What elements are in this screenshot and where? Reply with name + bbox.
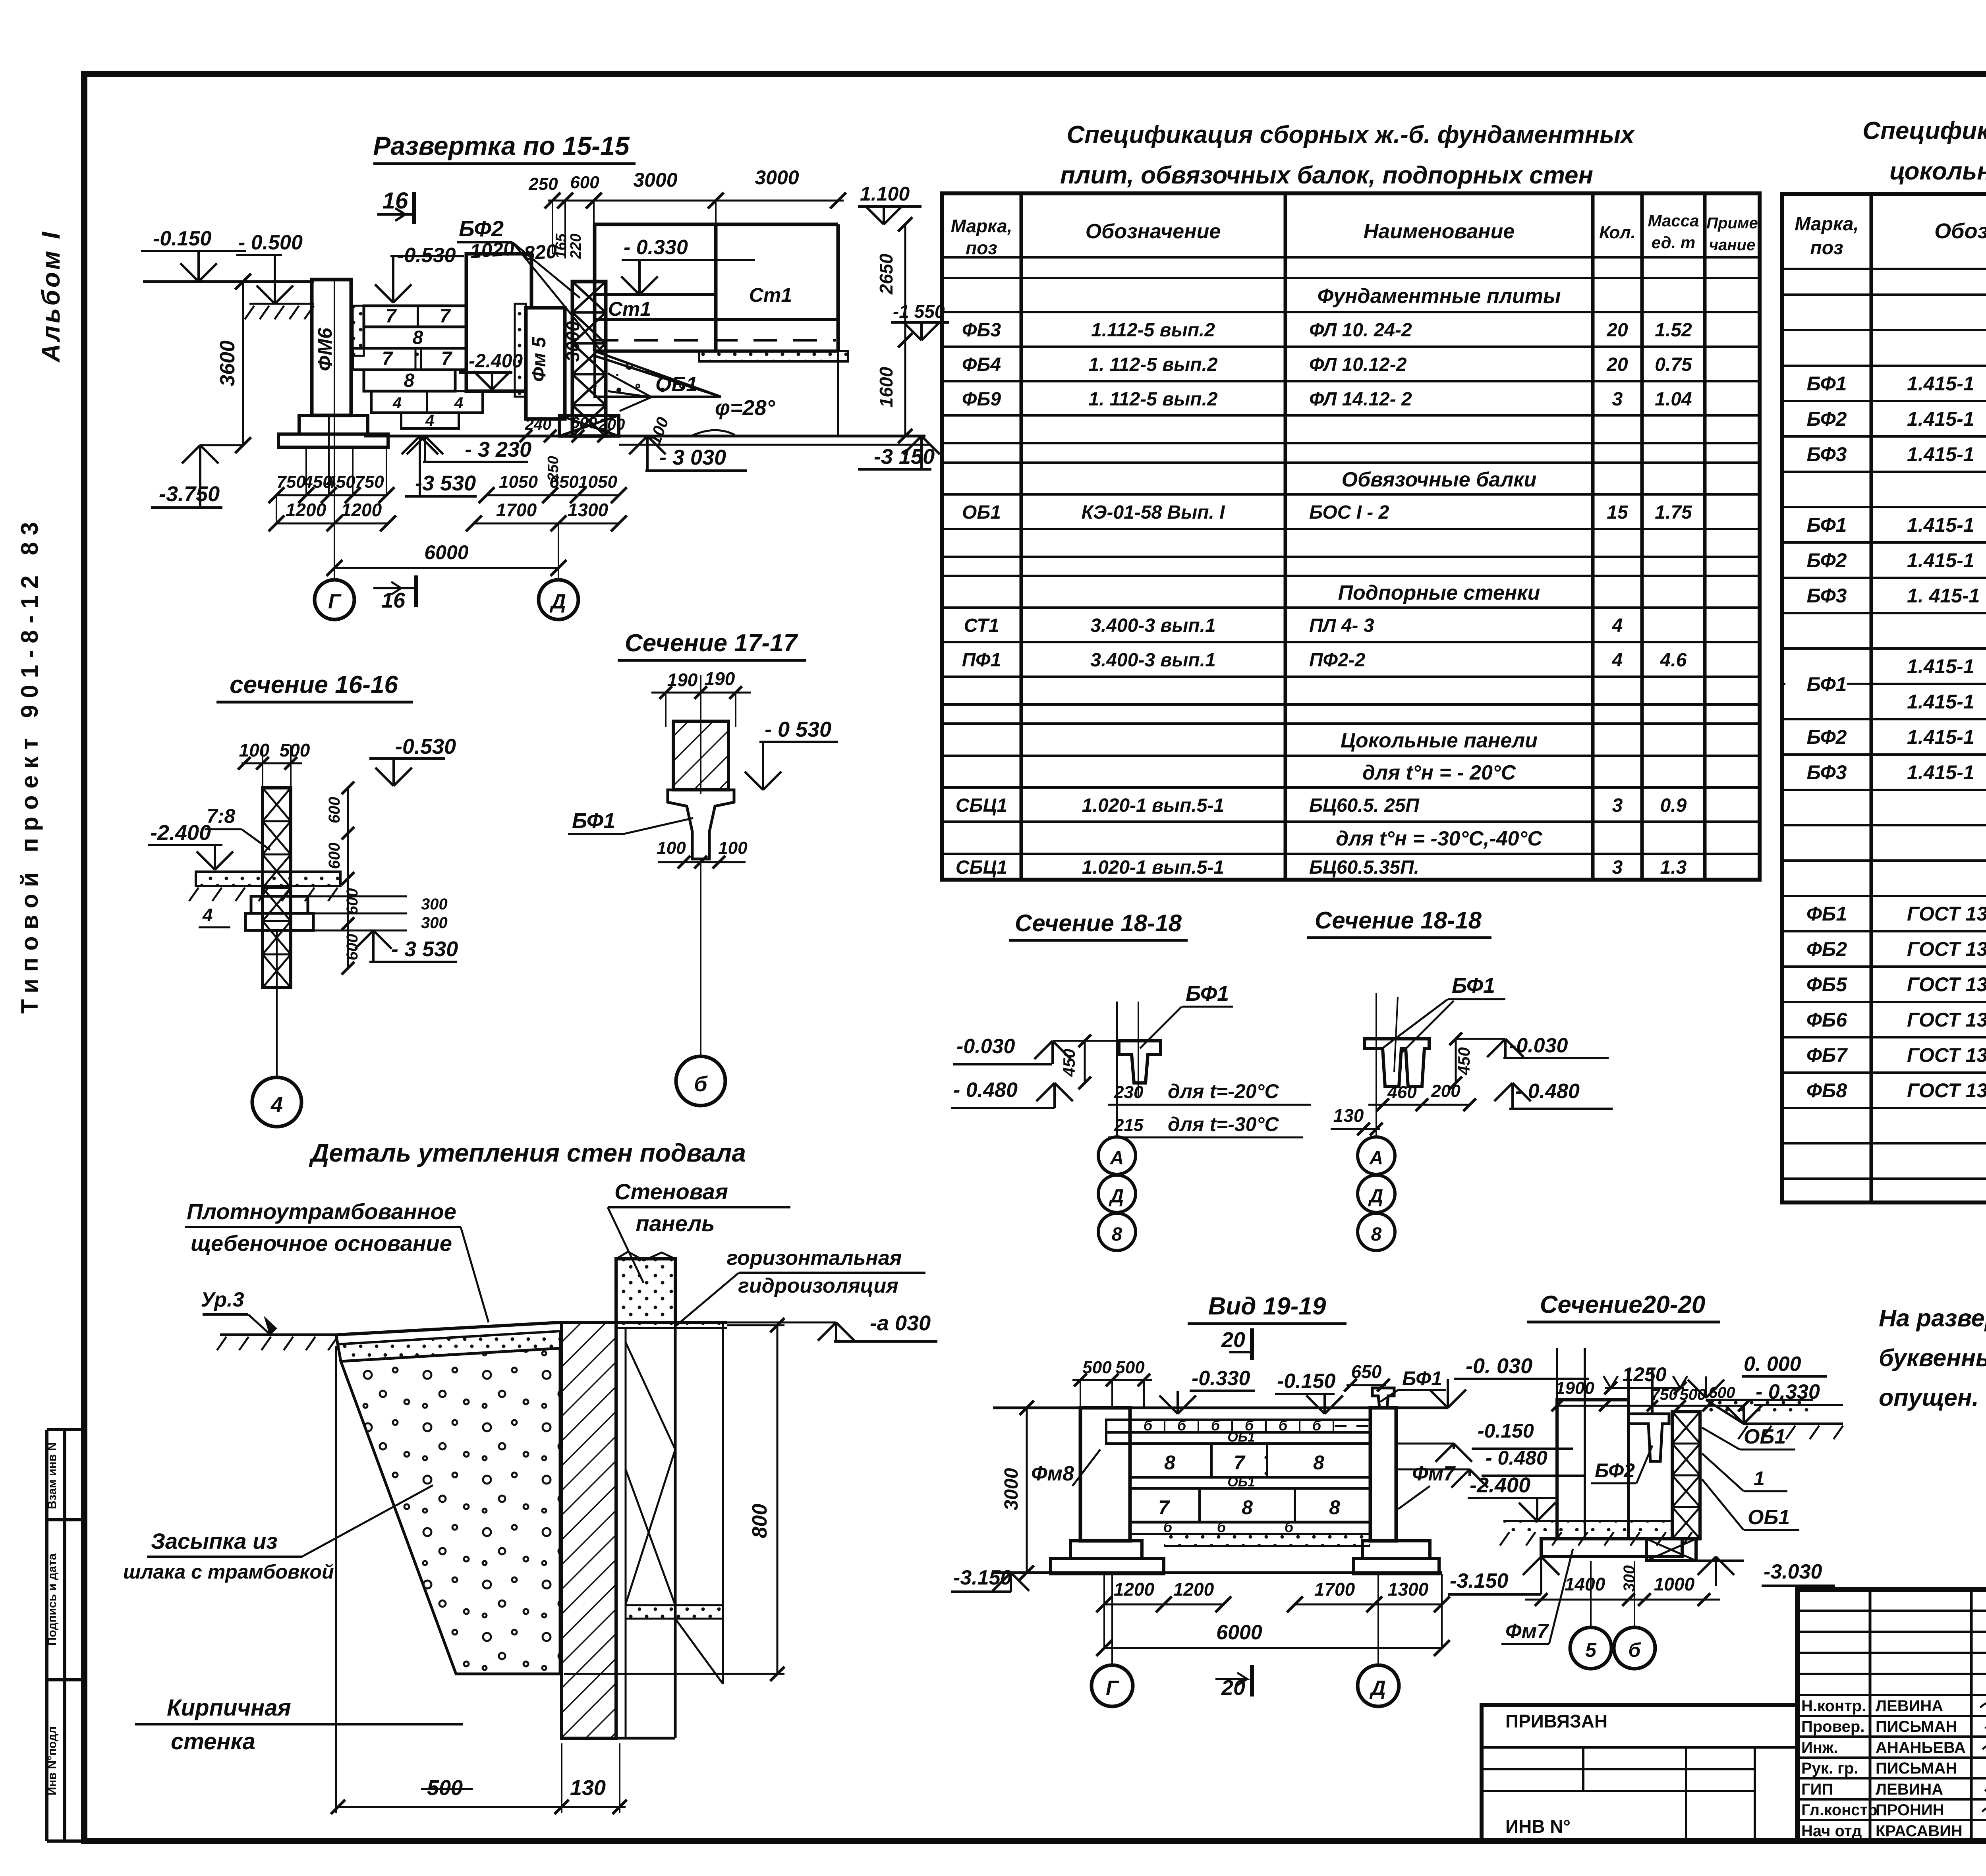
svg-text:650: 650 (549, 472, 579, 492)
membrane band lower (626, 1605, 723, 1619)
svg-text:1.415-1: 1.415-1 (1907, 726, 1974, 748)
svg-text:Обвязочные балки: Обвязочные балки (1342, 468, 1537, 491)
column Fm5 (526, 308, 565, 419)
svg-text:ОБ1: ОБ1 (655, 373, 697, 396)
svg-text:БФ2: БФ2 (1807, 408, 1847, 430)
svg-text:Г: Г (328, 590, 342, 613)
svg-text:460: 460 (1387, 1083, 1417, 1102)
svg-text:215: 215 (1114, 1116, 1144, 1135)
dim 3600 vertical (242, 282, 244, 445)
svg-text:СТ1: СТ1 (964, 615, 999, 636)
svg-text:буквенный индекс фундаментны: буквенный индекс фундаментных плит и бло… (1879, 1344, 1986, 1371)
svg-text:3000: 3000 (562, 321, 583, 362)
svg-text:-3.750: -3.750 (159, 482, 220, 506)
sec16 right dims 600x4 (347, 788, 349, 968)
svg-text:Фм 5: Фм 5 (529, 336, 550, 382)
svg-text:- 3 530: - 3 530 (391, 937, 458, 961)
svg-text:Альбом I: Альбом I (37, 230, 65, 363)
sec18L dim 450 (1084, 1041, 1086, 1083)
svg-text:ПЛ 4- 3: ПЛ 4- 3 (1309, 615, 1374, 636)
svg-text:БФ3: БФ3 (1807, 443, 1847, 465)
title block role rows (1797, 1694, 1986, 1696)
svg-text:1.415-1: 1.415-1 (1907, 655, 1974, 677)
svg-text:750: 750 (355, 472, 384, 492)
sec20 bottom dims (1525, 1599, 1720, 1601)
svg-text:цокольных панелей, блоков с: цокольных панелей, блоков стен подвала (1889, 158, 1986, 185)
svg-text:7: 7 (386, 306, 397, 327)
svg-text:7: 7 (440, 306, 451, 327)
svg-text:1.75: 1.75 (1655, 502, 1692, 523)
svg-text:4: 4 (1612, 615, 1623, 636)
svg-text:0. 000: 0. 000 (1744, 1353, 1801, 1376)
svg-text:Инв N°подл: Инв N°подл (46, 1726, 59, 1795)
svg-text:15: 15 (1607, 502, 1629, 523)
svg-text:панель: панель (636, 1211, 715, 1236)
column FM6 footing (299, 415, 368, 434)
svg-text:БФ1: БФ1 (1402, 1367, 1442, 1390)
svg-text:200: 200 (1431, 1081, 1461, 1101)
svg-text:0.75: 0.75 (1655, 354, 1692, 375)
svg-text:шлака с трамбовкой: шлака с трамбовкой (123, 1561, 334, 1583)
svg-text:Сечение 17-17: Сечение 17-17 (625, 629, 798, 657)
sec16 braced wall (263, 788, 291, 988)
svg-text:Засыпка из: Засыпка из (151, 1529, 278, 1554)
svg-text:Обозначение: Обозначение (1934, 219, 1986, 243)
svg-text:ЛЕВИНА: ЛЕВИНА (1876, 1781, 1943, 1798)
svg-text:Инж.: Инж. (1801, 1739, 1838, 1756)
svg-text:ГИП: ГИП (1801, 1781, 1833, 1798)
svg-text:Приме: Приме (1706, 214, 1758, 232)
svg-text:На развертке и сечениях, изобр: На развертке и сечениях, изображенных на… (1879, 1305, 1986, 1332)
dim row 1200 1200 (276, 523, 388, 525)
svg-text:600: 600 (326, 797, 343, 824)
svg-text:-1 550: -1 550 (893, 301, 945, 322)
sec18R wall lines (1376, 993, 1377, 1124)
svg-text:1. 415-1: 1. 415-1 (1907, 585, 1980, 607)
svg-text:3: 3 (1612, 389, 1623, 410)
svg-text:БФ1: БФ1 (1807, 673, 1847, 695)
svg-text:1: 1 (1754, 1467, 1765, 1490)
column FM6 (312, 280, 351, 415)
svg-text:БФ3: БФ3 (1807, 761, 1847, 784)
svg-text:Сечение 18-18: Сечение 18-18 (1015, 910, 1182, 936)
svg-text:800: 800 (748, 1504, 771, 1538)
svg-text:БФ2: БФ2 (459, 216, 504, 241)
bottom structure lines razvertka (364, 435, 925, 438)
svg-text:1700: 1700 (496, 500, 537, 520)
sec18L bubbles A D 8 (1116, 1124, 1118, 1138)
rubble strip speckles (338, 1331, 560, 1361)
band lower lip speckled (699, 351, 848, 361)
wall panel above (616, 1259, 675, 1322)
svg-text:- 0.480: - 0.480 (953, 1079, 1018, 1102)
svg-text:Сечение 18-18: Сечение 18-18 (1315, 907, 1482, 934)
svg-text:450: 450 (1060, 1049, 1078, 1077)
svg-text:БОС I - 2: БОС I - 2 (1309, 502, 1389, 523)
svg-text:1300: 1300 (568, 500, 609, 520)
svg-text:Фм8: Фм8 (1031, 1462, 1074, 1485)
svg-text:б: б (1279, 1417, 1288, 1434)
svg-text:4: 4 (425, 412, 434, 429)
svg-text:б: б (694, 1072, 708, 1096)
dim row 1050 650 1050 (487, 494, 619, 496)
detail ground left (220, 1334, 338, 1336)
svg-text:Ст1: Ст1 (749, 284, 792, 306)
ground line left (143, 280, 314, 283)
dim 800 right (777, 1325, 779, 1674)
svg-text:1.415-1: 1.415-1 (1907, 549, 1974, 571)
sec18R dim 450 (1455, 1039, 1457, 1083)
svg-text:Взам инв N: Взам инв N (46, 1442, 59, 1509)
svg-text:1.415-1: 1.415-1 (1907, 761, 1974, 784)
svg-text:1. 112-5 вып.2: 1. 112-5 вып.2 (1088, 354, 1218, 375)
svg-text:б: б (1211, 1417, 1221, 1434)
braced column footing X (559, 415, 619, 436)
svg-text:- 3 030: - 3 030 (659, 446, 726, 469)
svg-text:ГОСТ 13579-78: ГОСТ 13579-78 (1907, 1079, 1986, 1102)
svg-text:Масса: Масса (1648, 211, 1699, 230)
svg-text:100: 100 (718, 838, 748, 858)
sec16 ground slab (196, 872, 340, 886)
sec18R bubbles A D 8 (1376, 1124, 1377, 1138)
svg-text:АНАНЬЕВА: АНАНЬЕВА (1876, 1739, 1966, 1756)
svg-text:ФБ4: ФБ4 (962, 354, 1001, 375)
svg-text:БФ1: БФ1 (1807, 514, 1847, 536)
svg-text:1.52: 1.52 (1655, 320, 1692, 341)
svg-text:ОБ1: ОБ1 (962, 502, 1001, 523)
svg-text:1.415-1: 1.415-1 (1907, 514, 1974, 536)
svg-text:ФБ9: ФБ9 (962, 389, 1001, 410)
sec20 braced column (1672, 1412, 1700, 1539)
svg-text:1300: 1300 (1388, 1579, 1429, 1600)
svg-text:190: 190 (705, 668, 735, 689)
svg-text:600: 600 (326, 843, 343, 869)
svg-text:ОБ1: ОБ1 (1748, 1506, 1790, 1529)
soil wedge under band (595, 351, 721, 397)
sec20 footing slab (1541, 1539, 1682, 1557)
svg-text:100: 100 (239, 740, 270, 760)
svg-text:500: 500 (1115, 1358, 1145, 1377)
svg-text:Рук. гр.: Рук. гр. (1801, 1760, 1858, 1777)
detail bottom dims 500 130 (336, 1806, 626, 1808)
svg-text:-0.530: -0.530 (395, 735, 456, 759)
svg-text:1.020-1 вып.5-1: 1.020-1 вып.5-1 (1082, 857, 1224, 878)
svg-text:ФЛ 10.12-2: ФЛ 10.12-2 (1309, 354, 1407, 375)
svg-text:СБЦ1: СБЦ1 (956, 795, 1007, 816)
braced column X razvertka (572, 282, 606, 436)
svg-text:Развертка по 15-15: Развертка по 15-15 (373, 131, 630, 160)
svg-text:1.04: 1.04 (1655, 389, 1692, 410)
svg-text:7: 7 (441, 348, 453, 369)
svg-text:Фм7: Фм7 (1505, 1620, 1549, 1643)
svg-text:Г: Г (1106, 1677, 1119, 1700)
dashed line in band (595, 339, 836, 342)
svg-text:1.415-1: 1.415-1 (1907, 408, 1974, 430)
FM6 centerline (334, 280, 335, 523)
svg-text:чание: чание (1709, 236, 1755, 254)
waterproofing double line (617, 1321, 727, 1324)
svg-text:3: 3 (1612, 857, 1623, 878)
vid19 left footing (1070, 1541, 1142, 1559)
svg-text:300: 300 (421, 914, 448, 932)
svg-text:6000: 6000 (1216, 1621, 1262, 1644)
vid19 dim 6000 (1104, 1647, 1442, 1649)
svg-text:1.3: 1.3 (1660, 857, 1687, 878)
svg-text:165: 165 (553, 233, 570, 259)
svg-text:7: 7 (1234, 1451, 1246, 1474)
svg-text:ед. т: ед. т (1652, 233, 1696, 252)
svg-text:ГОСТ 13579-78: ГОСТ 13579-78 (1907, 903, 1986, 925)
svg-text:6000: 6000 (424, 541, 468, 564)
svg-text:Кол.: Кол. (1599, 223, 1636, 242)
svg-text:130: 130 (570, 1776, 606, 1800)
svg-text:1700: 1700 (1314, 1579, 1355, 1600)
svg-text:8: 8 (1371, 1224, 1382, 1245)
svg-text:БФ2: БФ2 (1807, 726, 1847, 748)
svg-text:Провер.: Провер. (1801, 1718, 1864, 1735)
svg-text:8: 8 (404, 370, 415, 391)
svg-text:Наименование: Наименование (1364, 220, 1515, 243)
svg-text:БФ2: БФ2 (1595, 1459, 1635, 1482)
svg-text:поз: поз (1810, 237, 1843, 259)
svg-text:стенка: стенка (171, 1729, 255, 1754)
svg-text:750: 750 (1651, 1386, 1678, 1403)
svg-text:ГОСТ 13579-78: ГОСТ 13579-78 (1907, 1044, 1986, 1066)
svg-text:Н.контр.: Н.контр. (1801, 1697, 1866, 1715)
grid bubble D (558, 523, 559, 579)
svg-text:1200: 1200 (341, 500, 382, 520)
title block outline (1797, 1590, 1986, 1841)
svg-text:щебеночное основание: щебеночное основание (191, 1231, 452, 1256)
svg-text:КЭ-01-58 Вып. I: КЭ-01-58 Вып. I (1081, 502, 1225, 523)
svg-text:1200: 1200 (1173, 1579, 1214, 1600)
svg-text:16: 16 (383, 188, 408, 214)
svg-text:Вид 19-19: Вид 19-19 (1208, 1293, 1326, 1320)
svg-text:для t°н = - 20°С: для t°н = - 20°С (1362, 761, 1517, 784)
svg-text:б: б (1144, 1417, 1153, 1434)
svg-text:3000: 3000 (1001, 1468, 1022, 1510)
svg-text:ПИСЬМАН: ПИСЬМАН (1876, 1760, 1957, 1777)
svg-text:Д: Д (1109, 1186, 1124, 1207)
top dim chain (548, 200, 844, 202)
svg-text:3600: 3600 (216, 340, 239, 386)
sec20 bubbles 5 6 (1590, 1561, 1592, 1626)
svg-text:Марка,: Марка, (1795, 214, 1859, 235)
svg-text:Ур.3: Ур.3 (201, 1288, 244, 1311)
svg-text:8: 8 (1242, 1496, 1253, 1519)
svg-text:600: 600 (344, 934, 361, 961)
vid19 bottom line (993, 1571, 1442, 1574)
svg-text:4.6: 4.6 (1660, 650, 1687, 671)
svg-text:горизонтальная: горизонтальная (727, 1247, 902, 1270)
brick wall rows razvertka (353, 306, 364, 356)
svg-text:ПИСЬМАН: ПИСЬМАН (1876, 1718, 1957, 1735)
svg-text:- 0.480: - 0.480 (1515, 1080, 1580, 1103)
svg-text:φ=28°: φ=28° (715, 396, 775, 420)
svg-text:1050: 1050 (499, 472, 538, 492)
svg-text:ПРИВЯЗАН: ПРИВЯЗАН (1505, 1711, 1607, 1731)
svg-text:7: 7 (1158, 1496, 1170, 1519)
sec17 hatched block (673, 721, 728, 790)
svg-text:750: 750 (276, 472, 306, 492)
band right extension (837, 351, 839, 436)
svg-text:5: 5 (1585, 1639, 1597, 1661)
svg-text:ФБ1: ФБ1 (1806, 903, 1847, 925)
svg-text:Спецификация сборных ж.- б. фу: Спецификация сборных ж.- б. фундаментных… (1862, 117, 1986, 145)
svg-text:300: 300 (1621, 1565, 1638, 1592)
svg-text:БФ1: БФ1 (572, 809, 615, 833)
svg-text:1200: 1200 (286, 500, 326, 520)
svg-text:450: 450 (1455, 1047, 1473, 1075)
svg-text:4: 4 (454, 394, 463, 412)
soil hatch left (245, 306, 254, 319)
svg-text:7: 7 (382, 348, 394, 369)
svg-text:ЛЕВИНА: ЛЕВИНА (1876, 1697, 1943, 1715)
backfill wedge (341, 1348, 560, 1674)
svg-text:-0.030: -0.030 (1509, 1034, 1568, 1057)
svg-text:250: 250 (528, 174, 558, 194)
svg-text:3.400-3 вып.1: 3.400-3 вып.1 (1090, 650, 1215, 671)
vert dim 2650 (904, 224, 906, 436)
sec20 central column (1556, 1348, 1558, 1539)
svg-text:1.415-1: 1.415-1 (1907, 691, 1974, 713)
svg-text:Типовой проект 901-8-12 83: Типовой проект 901-8-12 83 (16, 515, 43, 1013)
basement wall right (615, 1322, 618, 1738)
sec20 slab line (1503, 1520, 1672, 1522)
svg-text:Гл.констр: Гл.констр (1801, 1801, 1878, 1819)
svg-text:-3 530: -3 530 (415, 471, 476, 495)
sec20 BF2 tee (1629, 1414, 1669, 1461)
sec17 taper shape (668, 790, 734, 859)
svg-text:БФ3: БФ3 (1807, 585, 1847, 607)
vid19 left column Fm8 (1080, 1408, 1130, 1541)
svg-text:600: 600 (571, 414, 597, 432)
grid bubble G (334, 523, 335, 579)
svg-text:б: б (1163, 1519, 1173, 1535)
svg-text:-3.030: -3.030 (1764, 1560, 1822, 1583)
svg-text:для t°н = -30°С,-40°С: для t°н = -30°С,-40°С (1336, 827, 1543, 850)
vid19 dim 3000 left (1026, 1408, 1028, 1573)
svg-text:3.400-3 вып.1: 3.400-3 вып.1 (1090, 615, 1215, 636)
svg-text:20: 20 (1606, 320, 1628, 341)
svg-text:-3.150: -3.150 (953, 1566, 1012, 1589)
svg-text:1600: 1600 (876, 367, 896, 407)
svg-text:20: 20 (1221, 1328, 1245, 1352)
svg-text:-2.400: -2.400 (150, 821, 211, 845)
svg-text:опущен.: опущен. (1879, 1384, 1979, 1411)
svg-text:1.100: 1.100 (860, 183, 910, 205)
svg-text:ФБ2: ФБ2 (1806, 938, 1847, 960)
svg-text:-0.150: -0.150 (1478, 1420, 1534, 1442)
title block left columns (1869, 1590, 1872, 1841)
svg-text:ФБ5: ФБ5 (1806, 973, 1847, 996)
svg-text:4: 4 (392, 394, 402, 412)
margin stamp strip (45, 1430, 48, 1841)
svg-text:-0. 030: -0. 030 (1466, 1354, 1532, 1378)
svg-text:-0.330: -0.330 (1192, 1367, 1250, 1390)
svg-text:ГОСТ 13579-78: ГОСТ 13579-78 (1907, 973, 1986, 996)
svg-text:б: б (1217, 1519, 1227, 1535)
svg-text:ФБ7: ФБ7 (1806, 1044, 1848, 1066)
svg-text:Д: Д (1368, 1186, 1383, 1207)
sec18L wall lines (1116, 1002, 1118, 1124)
svg-text:Д: Д (1369, 1677, 1386, 1700)
sec16 footing (251, 896, 308, 913)
svg-text:Стеновая: Стеновая (614, 1179, 728, 1204)
svg-text:ФЛ 14.12- 2: ФЛ 14.12- 2 (1309, 389, 1412, 410)
svg-text:БФ1: БФ1 (1186, 982, 1229, 1006)
brick wall hatched (562, 1322, 616, 1738)
svg-text:500: 500 (427, 1776, 463, 1800)
svg-text:8: 8 (413, 327, 423, 348)
svg-text:8: 8 (1313, 1451, 1324, 1474)
title block left thin rows (1797, 1610, 1986, 1612)
svg-text:1000: 1000 (1654, 1574, 1695, 1594)
svg-text:-а 030: -а 030 (870, 1311, 931, 1335)
svg-text:БФ1: БФ1 (1452, 974, 1495, 998)
svg-text:ФБ3: ФБ3 (962, 320, 1001, 341)
svg-text:БЦ60.5. 25П: БЦ60.5. 25П (1309, 795, 1420, 816)
svg-text:240: 240 (525, 416, 552, 433)
svg-text:Цокольные панели: Цокольные панели (1341, 729, 1538, 752)
svg-text:3000: 3000 (633, 169, 677, 191)
wall braces (626, 1342, 675, 1449)
svg-text:220: 220 (568, 234, 584, 259)
svg-text:2650: 2650 (876, 253, 896, 295)
svg-text:1.112-5 вып.2: 1.112-5 вып.2 (1091, 320, 1215, 341)
dim row 750 450 450 750 (276, 494, 386, 496)
svg-text:ОБ1: ОБ1 (1744, 1425, 1786, 1448)
svg-text:-0.150: -0.150 (153, 227, 212, 250)
spec table 1 grid (942, 193, 1760, 880)
privyazan box (1482, 1705, 1797, 1841)
svg-text:Обозначение: Обозначение (1086, 220, 1221, 243)
vid19 bottom dims (1104, 1604, 1223, 1606)
wall panels St1 (595, 223, 838, 226)
svg-text:-3.150: -3.150 (1450, 1569, 1509, 1592)
svg-text:- 0 530: - 0 530 (765, 718, 831, 741)
svg-text:Подпись и дата: Подпись и дата (46, 1553, 59, 1646)
svg-text:Нач отд: Нач отд (1801, 1822, 1862, 1840)
svg-text:1900: 1900 (1555, 1378, 1594, 1398)
detail top profile (338, 1322, 617, 1335)
svg-text:Кирпичная: Кирпичная (167, 1695, 291, 1721)
svg-text:ПФ2-2: ПФ2-2 (1309, 650, 1366, 671)
svg-text:600: 600 (344, 888, 361, 915)
dim row 1700 1300 (474, 523, 619, 525)
svg-text:600: 600 (570, 173, 599, 192)
svg-text:ПРОНИН: ПРОНИН (1876, 1801, 1944, 1819)
dim 6000 (334, 567, 558, 569)
svg-text:4: 4 (270, 1093, 283, 1117)
svg-text:Деталь утепления стен подвала: Деталь утепления стен подвала (309, 1139, 746, 1167)
svg-text:1. 112-5 вып.2: 1. 112-5 вып.2 (1088, 389, 1218, 410)
svg-text:КРАСАВИН: КРАСАВИН (1876, 1822, 1963, 1840)
svg-text:-2.400: -2.400 (469, 351, 523, 372)
svg-text:гидроизоляция: гидроизоляция (738, 1274, 898, 1297)
svg-text:для t=-30°C: для t=-30°C (1168, 1113, 1279, 1135)
svg-text:200: 200 (598, 416, 625, 433)
block BF2 big (466, 254, 531, 391)
svg-text:- 0.480: - 0.480 (1486, 1447, 1547, 1469)
svg-text:8: 8 (1329, 1496, 1340, 1519)
svg-text:1020: 1020 (469, 237, 515, 262)
svg-text:СБЦ1: СБЦ1 (956, 857, 1007, 878)
svg-text:Д: Д (549, 590, 566, 613)
svg-text:ФБ6: ФБ6 (1806, 1009, 1847, 1031)
vid19 right column Fm7 (1370, 1408, 1396, 1541)
svg-text:- 0.330: - 0.330 (624, 236, 688, 259)
